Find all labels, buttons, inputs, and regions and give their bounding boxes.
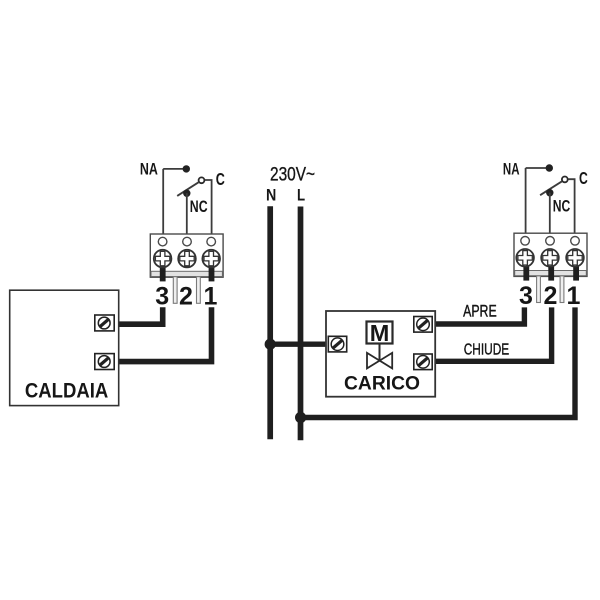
right block wire hole 3	[521, 237, 530, 246]
CARICO lower-right screw terminal	[414, 354, 432, 370]
wire: right switch NA horizontal	[526, 167, 550, 169]
svg-text:M: M	[370, 320, 390, 346]
label CARICO	[344, 372, 420, 394]
CALDAIA upper screw terminal	[95, 315, 114, 331]
right terminal block body	[514, 233, 587, 276]
label terminal number 3 (right)	[519, 282, 533, 310]
wire: right switch NC lead to terminal 2	[549, 193, 551, 237]
left switch lever	[177, 182, 198, 196]
label N	[266, 187, 276, 205]
wire: right switch NA lead down to terminal 3	[525, 168, 527, 237]
svg-text:3: 3	[155, 282, 169, 310]
svg-text:CALDAIA: CALDAIA	[25, 380, 108, 403]
svg-text:NA: NA	[140, 160, 158, 179]
left switch NC contact dot	[183, 190, 190, 197]
wire: L supply vertical line	[298, 207, 304, 441]
svg-text:2: 2	[544, 282, 558, 310]
label CHIUDE	[464, 341, 510, 358]
left block wire hole 2	[183, 237, 192, 246]
label 230V~	[270, 164, 315, 186]
label NC (right)	[553, 196, 571, 215]
motor symbol M box	[367, 320, 393, 346]
label C (right)	[579, 168, 588, 188]
label terminal number 2 (left)	[179, 282, 193, 310]
right block wire hole 1	[571, 237, 580, 246]
wire: CHIUDE from CARICO lower-right terminal to right terminal 2	[432, 307, 551, 361]
svg-text:CHIUDE: CHIUDE	[464, 341, 510, 358]
CALDAIA box	[10, 290, 119, 405]
svg-text:C: C	[216, 169, 225, 189]
right switch lever	[540, 181, 562, 195]
wire stub under right terminal 3	[523, 258, 529, 280]
wire: left switch NC lead to terminal 2	[186, 193, 188, 237]
right block wire hole 2	[546, 237, 555, 246]
left block wire hole 1	[207, 237, 216, 246]
left switch NA contact dot	[183, 165, 190, 172]
left terminal block body	[150, 234, 223, 277]
label terminal number 1 (right)	[567, 282, 581, 310]
label C (left)	[216, 169, 225, 189]
label APRE	[463, 302, 497, 320]
wire stub under right terminal 1	[573, 258, 579, 280]
wire stub under right terminal 2	[548, 258, 554, 280]
svg-text:230V~: 230V~	[270, 164, 315, 186]
CARICO upper-right screw terminal	[414, 317, 432, 333]
svg-text:1: 1	[204, 282, 218, 310]
CARICO box	[326, 311, 435, 397]
svg-text:NC: NC	[553, 196, 571, 215]
label terminal number 2 (right)	[544, 282, 558, 310]
left block unused pin A	[173, 277, 177, 304]
wire stub under left terminal 1	[209, 259, 215, 281]
left block screw 3	[154, 250, 172, 268]
wire: left switch NA lead down to terminal 3	[162, 169, 164, 238]
right block unused pin B	[560, 276, 564, 303]
wire: left terminal 1 to CALDAIA lower terminal	[114, 307, 212, 361]
svg-text:APRE: APRE	[463, 302, 497, 320]
CARICO left screw terminal	[328, 336, 346, 352]
svg-text:3: 3	[519, 282, 533, 310]
wire: left terminal 3 to CALDAIA upper terminal	[114, 307, 163, 324]
label NA (left)	[140, 160, 158, 179]
left block screw 2	[178, 250, 196, 268]
left block wire hole 3	[158, 237, 167, 246]
wire: branch from N to CARICO left terminal	[270, 342, 332, 347]
wire: left switch NA horizontal	[163, 168, 186, 170]
label NC (left)	[190, 197, 208, 216]
junction dot on N line	[265, 339, 276, 350]
label NA (right)	[503, 160, 520, 179]
label L	[297, 187, 305, 205]
svg-text:C: C	[579, 168, 588, 188]
wire: N supply vertical line	[267, 206, 273, 439]
valve symbol (bowtie)	[367, 353, 392, 369]
label CALDAIA	[25, 380, 108, 403]
left block screw 1	[202, 250, 220, 268]
svg-text:N: N	[266, 187, 276, 205]
svg-text:CARICO: CARICO	[344, 372, 420, 394]
right block unused pin A	[537, 276, 541, 303]
wire: right switch C lead to terminal 1	[568, 179, 574, 236]
svg-text:2: 2	[179, 282, 193, 310]
junction dot on L line	[295, 412, 306, 423]
svg-text:1: 1	[567, 282, 581, 310]
wire: left switch C lead to terminal 1	[205, 180, 212, 238]
label terminal number 1 (left)	[204, 282, 218, 310]
CALDAIA lower screw terminal	[95, 354, 114, 370]
svg-text:NA: NA	[503, 160, 520, 179]
svg-text:L: L	[297, 187, 305, 205]
right switch NC contact dot	[546, 189, 553, 196]
right switch NA contact dot	[546, 164, 553, 171]
right switch common pivot (open circle)	[562, 177, 568, 183]
wire stub under left terminal 3	[160, 259, 166, 281]
label terminal number 3 (left)	[155, 282, 169, 310]
wire: bottom return from right terminal 1 to L line	[301, 307, 575, 417]
right block screw 3	[516, 249, 534, 267]
left switch common pivot (open circle)	[199, 177, 205, 183]
right block screw 1	[566, 249, 584, 267]
wire: APRE from CARICO upper-right terminal to right terminal 3	[432, 307, 524, 324]
svg-text:NC: NC	[190, 197, 208, 216]
left block unused pin B	[197, 277, 201, 304]
valve symbol stem	[379, 344, 381, 361]
right block screw 2	[541, 249, 559, 267]
